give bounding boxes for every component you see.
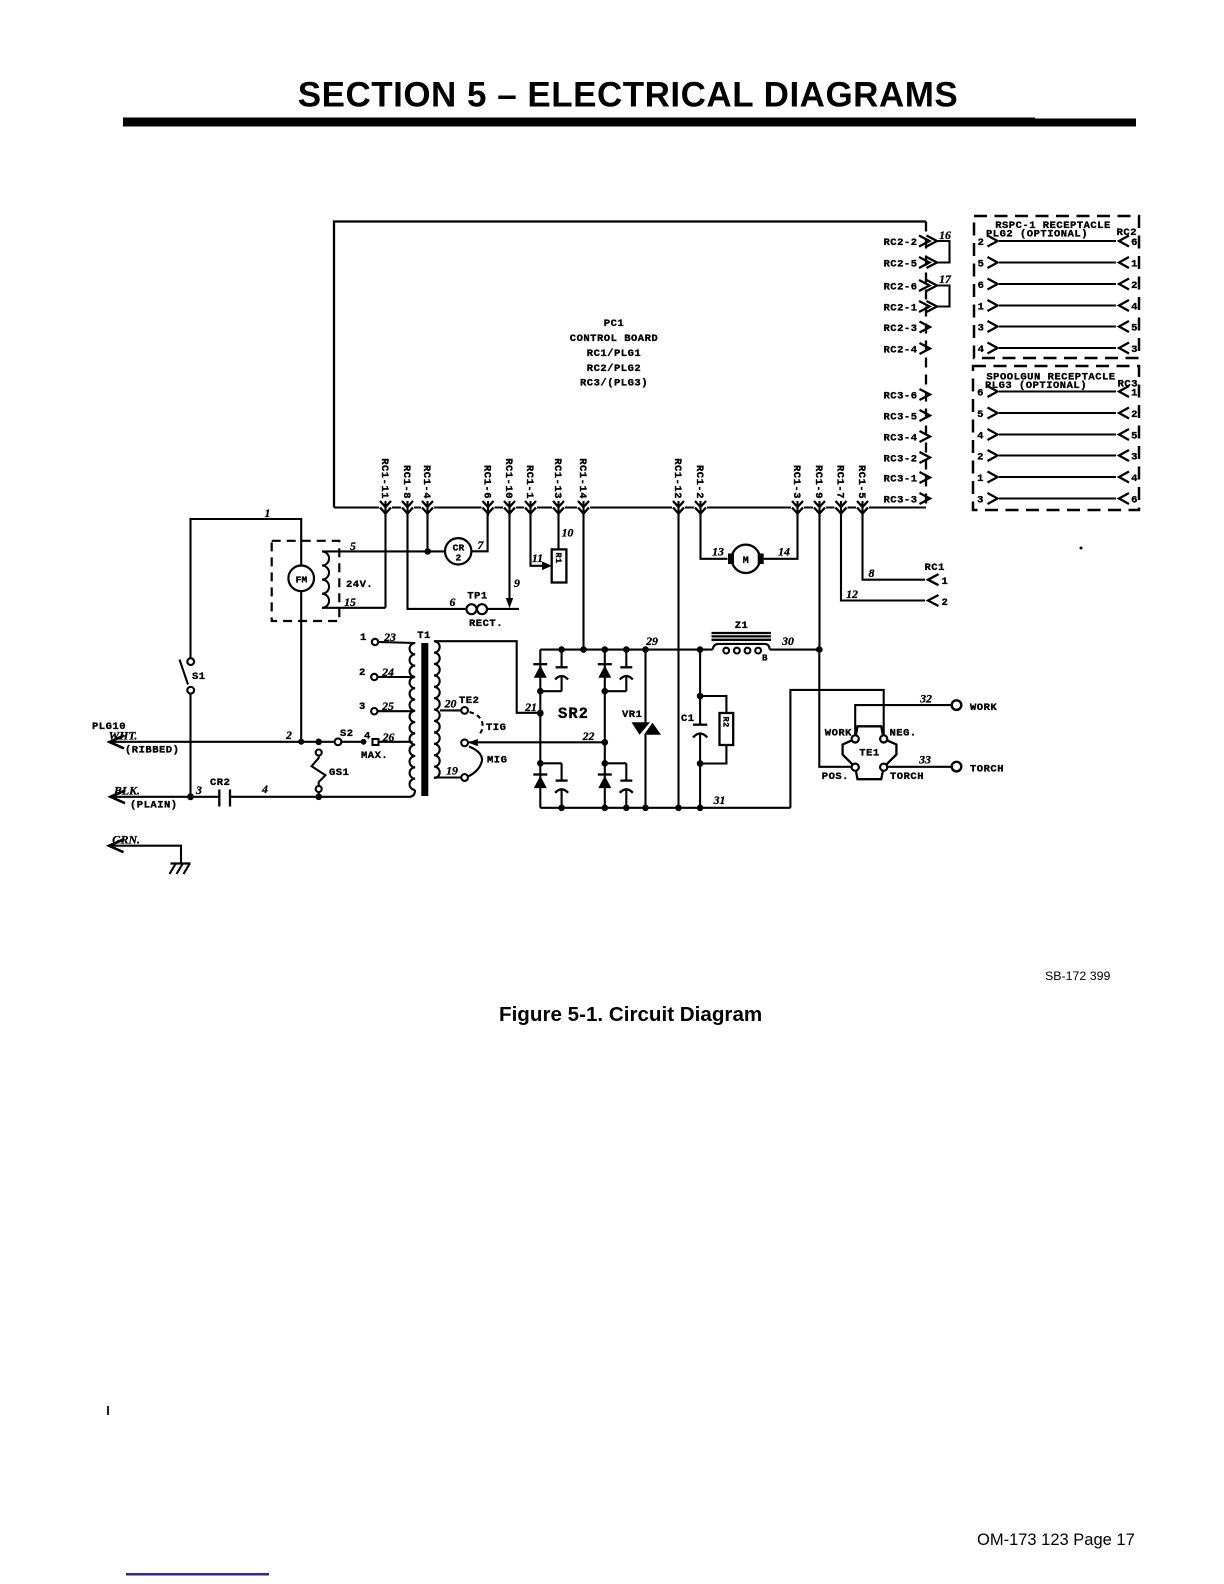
svg-text:RC1-8: RC1-8: [400, 465, 412, 499]
pin RC1-1: [523, 465, 536, 516]
wire 9 arrow RC1-10: [506, 513, 520, 608]
svg-text:RC1-13: RC1-13: [551, 458, 563, 499]
svg-text:30: 30: [781, 634, 794, 648]
svg-text:13: 13: [712, 545, 724, 559]
TE1 terminal NEG: [880, 735, 887, 742]
motor M: [728, 545, 764, 573]
svg-text:24: 24: [381, 665, 394, 679]
SR2 diode top-middle: [598, 664, 612, 678]
WHT lead arrow: [109, 729, 335, 757]
svg-text:RC1-2: RC1-2: [693, 465, 705, 499]
svg-text:PC1: PC1: [604, 318, 624, 330]
TIG dashed position: [470, 712, 507, 736]
svg-text:TE1: TE1: [859, 748, 879, 760]
SR2 node top-left: [537, 646, 565, 694]
svg-text:RC3-3: RC3-3: [883, 495, 917, 507]
wire 4: [230, 782, 415, 797]
SR2 node bottom-middle: [602, 760, 630, 811]
pin RC2-4: [883, 343, 930, 357]
svg-text:POS.: POS.: [822, 771, 849, 783]
T1 tap 3 wire 25: [359, 699, 413, 714]
svg-text:31: 31: [713, 793, 726, 807]
svg-text:1: 1: [265, 506, 271, 520]
TE1 terminal POS: [852, 764, 859, 771]
svg-text:1: 1: [360, 632, 367, 644]
svg-text:26: 26: [382, 730, 395, 744]
TE1 labels: [822, 728, 924, 784]
pin RC2-6: [883, 280, 937, 294]
pin RC1-5: [855, 465, 868, 516]
svg-text:2: 2: [1131, 280, 1138, 292]
SPOOLGUN row 4-5: [977, 429, 1138, 443]
SR2 snubber cap top-middle: [620, 650, 633, 692]
BLK lead arrow: [111, 784, 220, 812]
node J wire 3: [187, 783, 202, 800]
varistor VR1: [622, 650, 661, 812]
SR2 diode top-left: [533, 664, 547, 678]
T1 tap 2 wire 24: [359, 665, 413, 680]
svg-text:MAX.: MAX.: [361, 750, 388, 762]
wire RC1-4 to wire5 junction: [424, 513, 431, 555]
svg-text:2: 2: [1131, 409, 1138, 421]
svg-text:RC1-3: RC1-3: [790, 465, 802, 499]
pin RC3-5: [883, 410, 930, 424]
SR2 snubber cap bottom-middle: [620, 763, 633, 808]
wire 22 TE2 wiper to SR2: [469, 729, 608, 746]
wire RC1-12 to bus 31: [675, 513, 682, 811]
svg-text:2: 2: [978, 237, 985, 249]
fan 24V winding: [322, 551, 373, 607]
svg-text:TORCH: TORCH: [890, 771, 924, 783]
svg-text:RC1/PLG1: RC1/PLG1: [587, 348, 641, 360]
svg-text:3: 3: [195, 783, 202, 797]
fan motor dashed enclosure: [272, 541, 340, 621]
relay contact CR2: [210, 777, 230, 807]
RC1 plug arrows: [925, 547, 1083, 610]
svg-text:SECTION 5 – ELECTRICAL DIAGRAM: SECTION 5 – ELECTRICAL DIAGRAMS: [298, 76, 958, 115]
svg-text:RC1-14: RC1-14: [576, 458, 588, 499]
svg-text:10: 10: [562, 526, 574, 540]
wire 32 WORK terminal to stud: [855, 692, 951, 736]
svg-text:1: 1: [942, 576, 949, 588]
svg-text:6: 6: [978, 280, 985, 292]
wire 11 arrow RC1-1 to R1: [531, 513, 553, 570]
svg-text:RC1-9: RC1-9: [812, 465, 824, 499]
SR2 node top-middle: [602, 646, 630, 694]
WORK stud: [952, 700, 998, 714]
SPOOLGUN row 2-3: [977, 450, 1138, 464]
pin RC1-3: [790, 465, 803, 516]
svg-text:1: 1: [978, 302, 985, 314]
svg-text:GRN.: GRN.: [112, 833, 140, 847]
SPOOLGUN receptacle box: [973, 366, 1139, 510]
svg-text:(PLAIN): (PLAIN): [130, 800, 178, 812]
svg-text:RECT.: RECT.: [469, 618, 503, 630]
svg-text:12: 12: [846, 587, 858, 601]
svg-text:WORK: WORK: [825, 728, 852, 740]
svg-text:22: 22: [582, 729, 595, 743]
svg-text:2: 2: [977, 452, 984, 464]
PC1 bottom pin gaps: [379, 505, 869, 510]
svg-text:RC1-11: RC1-11: [378, 458, 390, 499]
svg-text:14: 14: [778, 545, 790, 559]
pin RC1-6: [481, 465, 494, 516]
MIG position: [468, 747, 507, 777]
svg-text:15: 15: [344, 595, 356, 609]
svg-text:S2: S2: [340, 728, 354, 740]
RSPC-1 row 1-4: [978, 300, 1138, 314]
svg-text:SR2: SR2: [558, 705, 589, 723]
svg-text:2: 2: [285, 728, 292, 742]
RSPC-1 row 6-2: [978, 279, 1138, 293]
svg-text:3: 3: [977, 495, 984, 507]
wire NEG to bus 31: [790, 690, 883, 808]
svg-text:7: 7: [478, 538, 485, 552]
svg-text:TORCH: TORCH: [970, 764, 1004, 776]
svg-text:16: 16: [939, 228, 951, 242]
svg-text:GS1: GS1: [329, 767, 349, 779]
TE2 wiper tap: [461, 739, 478, 746]
terminal block TE1 outline: [843, 726, 897, 779]
svg-text:20: 20: [444, 697, 457, 711]
resistor R1: [552, 549, 567, 582]
ground: [170, 864, 191, 875]
wire 21 node dot: [537, 710, 544, 717]
svg-text:RC1-6: RC1-6: [481, 465, 493, 499]
svg-text:C1: C1: [681, 713, 695, 725]
svg-text:MIG: MIG: [487, 755, 507, 767]
tap 20 TE2: [440, 695, 479, 714]
SR2 node bottom-left: [537, 760, 565, 811]
SPOOLGUN row 1-4: [977, 472, 1138, 486]
SPOOLGUN row 3-6: [977, 493, 1138, 507]
svg-text:RC2-2: RC2-2: [883, 237, 917, 249]
svg-text:25: 25: [381, 699, 394, 713]
svg-text:5: 5: [1131, 323, 1138, 335]
capacitor C1: [681, 713, 707, 738]
TORCH stud: [952, 762, 1004, 776]
PC1 control board text: [570, 318, 658, 390]
test point TP1: [450, 591, 519, 631]
wire RC1-9 to node 30: [818, 513, 820, 650]
header rule: [123, 118, 1035, 127]
svg-text:RC2-5: RC2-5: [883, 259, 917, 271]
pin RC3-2: [883, 452, 930, 466]
svg-text:TE2: TE2: [459, 695, 479, 707]
GS1 bottom junction: [315, 794, 322, 801]
svg-text:24V.: 24V.: [346, 579, 373, 591]
svg-text:RC3-6: RC3-6: [883, 391, 917, 403]
wire 8 RC1-5 to RC1 plug pin1: [863, 513, 926, 580]
SPOOLGUN row 6-1: [977, 386, 1138, 400]
wire RC1-11 to coil: [384, 513, 386, 608]
svg-text:RC2-6: RC2-6: [883, 282, 917, 294]
svg-text:B: B: [762, 654, 768, 664]
SR2 snubber cap bottom-left: [555, 763, 568, 808]
svg-text:4: 4: [261, 782, 268, 796]
svg-text:3: 3: [1131, 344, 1138, 356]
svg-text:6: 6: [1131, 495, 1138, 507]
PC1 control board box: [334, 222, 926, 508]
svg-text:1: 1: [1131, 259, 1138, 271]
svg-text:5: 5: [978, 259, 985, 271]
wire 15: [322, 595, 386, 609]
inductor Z1 core: [712, 620, 772, 640]
wire 12 RC1-7 to RC1 plug pin2: [841, 513, 925, 601]
pin RC3-1: [883, 472, 930, 486]
pin RC1-4: [420, 465, 433, 516]
svg-text:RC2/PLG2: RC2/PLG2: [587, 363, 641, 375]
SR2 snubber cap top-left: [555, 650, 568, 692]
svg-text:1: 1: [977, 473, 984, 485]
svg-text:M: M: [743, 556, 750, 567]
svg-text:RC3/(PLG3): RC3/(PLG3): [580, 378, 648, 390]
svg-text:RC1: RC1: [925, 562, 945, 574]
svg-text:VR1: VR1: [622, 709, 642, 721]
svg-text:9: 9: [514, 576, 520, 590]
svg-text:RC3-1: RC3-1: [883, 474, 917, 486]
svg-text:CR2: CR2: [210, 777, 230, 789]
wire 16 jumper RC2-2 to RC2-5: [937, 228, 951, 263]
wire 13 RC1-2 to motor: [701, 513, 728, 559]
capacitor C1 branch: [697, 646, 704, 811]
svg-text:RC1-12: RC1-12: [671, 458, 683, 499]
svg-text:RC1-10: RC1-10: [502, 458, 514, 499]
RSPC-1 row 2-6: [978, 236, 1138, 250]
SR2 diode bottom-left: [533, 775, 547, 789]
svg-text:OM-173 123 Page 17: OM-173 123 Page 17: [977, 1531, 1135, 1549]
inductor Z1 winding: [713, 644, 770, 664]
RSPC-1 receptacle box: [974, 216, 1139, 358]
wire RC1-14 to SR2: [580, 513, 587, 653]
pin RC2-5: [883, 257, 937, 271]
wire 2 junction dot: [285, 728, 304, 745]
svg-text:5: 5: [350, 539, 356, 553]
svg-text:TP1: TP1: [467, 591, 487, 603]
resistor GS1: [312, 750, 350, 797]
svg-text:WHT.: WHT.: [109, 729, 138, 743]
svg-text:RC1-7: RC1-7: [834, 465, 846, 499]
svg-text:5: 5: [977, 409, 984, 421]
svg-text:23: 23: [383, 630, 396, 644]
svg-text:32: 32: [919, 692, 932, 706]
pin RC1-13: [551, 458, 564, 516]
svg-text:S1: S1: [192, 671, 206, 683]
T1 tap 4 wire 26: [361, 730, 413, 762]
wire RC1-8 down to TP1: [408, 513, 467, 609]
GS1 junction dot: [315, 739, 322, 746]
svg-text:5: 5: [1131, 431, 1138, 443]
svg-text:29: 29: [645, 634, 658, 648]
SR2 diode bottom-middle: [598, 775, 612, 789]
svg-text:T1: T1: [417, 630, 431, 642]
SPOOLGUN row 5-2: [977, 408, 1138, 422]
svg-text:PLG2 (OPTIONAL): PLG2 (OPTIONAL): [986, 229, 1088, 241]
pin RC3-6: [883, 389, 930, 403]
RSPC-1 row 5-1: [978, 257, 1138, 271]
wire node30 down to POS: [819, 650, 851, 767]
svg-text:Z1: Z1: [735, 620, 749, 632]
svg-text:TIG: TIG: [486, 722, 506, 734]
SR2 bottom rail wire 31: [540, 793, 790, 808]
pin RC1-8: [400, 465, 413, 516]
svg-text:21: 21: [524, 700, 537, 714]
SR2 left rail: [539, 650, 541, 808]
svg-text:3: 3: [978, 323, 985, 335]
svg-text:RC1-5: RC1-5: [855, 465, 867, 499]
wire 7 CR2 to RC1-6: [471, 513, 487, 552]
wire 30: [781, 634, 822, 653]
GRN lead arrow: [109, 833, 181, 864]
svg-text:6: 6: [1131, 237, 1138, 249]
svg-text:3: 3: [1131, 452, 1138, 464]
pin RC1-12: [671, 458, 684, 516]
svg-text:4: 4: [1131, 302, 1138, 314]
pin RC2-2: [883, 236, 937, 250]
pin RC1-2: [693, 465, 706, 516]
svg-text:8: 8: [869, 566, 875, 580]
T1 primary winding: [410, 643, 416, 790]
pin RC3-4: [883, 431, 930, 445]
fan motor FM: [288, 566, 314, 742]
wire 10 RC1-13 to R1: [559, 513, 574, 549]
svg-text:RC2-4: RC2-4: [883, 345, 917, 357]
svg-text:2: 2: [359, 667, 366, 679]
svg-text:4: 4: [1131, 473, 1138, 485]
svg-text:(RIBBED): (RIBBED): [125, 745, 179, 757]
pin RC1-14: [576, 458, 589, 516]
svg-text:RC1-4: RC1-4: [420, 465, 432, 499]
svg-text:6: 6: [977, 388, 984, 400]
svg-text:4: 4: [978, 344, 985, 356]
svg-text:BLK.: BLK.: [113, 784, 140, 798]
svg-text:2: 2: [456, 553, 462, 564]
SR2 middle rail: [604, 650, 606, 808]
svg-text:Figure 5-1. Circuit Diagram: Figure 5-1. Circuit Diagram: [499, 1003, 762, 1026]
svg-text:2: 2: [942, 597, 949, 609]
svg-text:RC3-5: RC3-5: [883, 412, 917, 424]
wire 33 TORCH terminal to stud: [887, 753, 951, 767]
svg-text:6: 6: [450, 595, 456, 609]
svg-text:NEG.: NEG.: [890, 728, 917, 740]
svg-text:19: 19: [446, 764, 458, 778]
svg-text:RC2-1: RC2-1: [883, 303, 917, 315]
pin RC1-9: [812, 465, 825, 516]
transformer T1: [417, 630, 431, 796]
node 29: [642, 634, 658, 653]
svg-text:33: 33: [918, 753, 931, 767]
svg-text:RC2-3: RC2-3: [883, 323, 917, 335]
wire 5: [322, 539, 445, 553]
svg-text:RC3-4: RC3-4: [883, 433, 917, 445]
T1 tap 1 wire 23: [360, 630, 415, 645]
wire 14 motor to RC1-3: [764, 513, 798, 559]
svg-text:11: 11: [532, 551, 543, 565]
bottom blue line: [126, 1573, 269, 1576]
switch S1: [180, 658, 206, 693]
T1 secondary winding: [434, 641, 440, 778]
wire S1 to BLK junction: [189, 694, 191, 797]
pin RC2-1: [883, 301, 937, 315]
section header title: [298, 76, 958, 115]
svg-text:FM: FM: [296, 575, 308, 586]
svg-text:R1: R1: [553, 553, 563, 564]
svg-text:4: 4: [364, 731, 371, 743]
RSPC-1 row 4-3: [978, 343, 1138, 357]
pin RC1-11: [378, 458, 391, 516]
wire 17 jumper RC2-6 to RC2-1: [937, 272, 952, 307]
TE1 terminal TORCH: [880, 764, 887, 771]
wire 21 secondary top to SR2: [434, 641, 544, 716]
svg-text:SB-172 399: SB-172 399: [1045, 969, 1111, 983]
svg-text:4: 4: [977, 431, 984, 443]
pin RC1-7: [834, 465, 847, 516]
bleeder resistor R2: [700, 696, 733, 764]
svg-text:WORK: WORK: [970, 702, 997, 714]
relay coil CR2: [445, 538, 471, 564]
selector switch S2: [335, 728, 367, 745]
svg-text:3: 3: [359, 701, 366, 713]
svg-text:RC3-2: RC3-2: [883, 454, 917, 466]
svg-text:CONTROL BOARD: CONTROL BOARD: [570, 333, 658, 345]
svg-text:R2: R2: [721, 717, 731, 728]
tap 19: [434, 764, 468, 781]
RSPC-1 row 3-5: [978, 321, 1138, 335]
svg-text:RC1-1: RC1-1: [523, 465, 535, 499]
SR2 top rail wire 29: [540, 649, 819, 651]
pin RC1-10: [502, 458, 515, 516]
stray mark: [107, 1406, 109, 1415]
pin RC3-3: [883, 493, 930, 507]
TE1 terminal WORK: [852, 735, 859, 742]
svg-text:17: 17: [939, 272, 952, 286]
svg-text:PLG3 (OPTIONAL): PLG3 (OPTIONAL): [985, 380, 1087, 392]
pin RC2-3: [883, 322, 930, 336]
wire 1 top loop: [191, 506, 302, 658]
svg-text:1: 1: [1131, 388, 1138, 400]
